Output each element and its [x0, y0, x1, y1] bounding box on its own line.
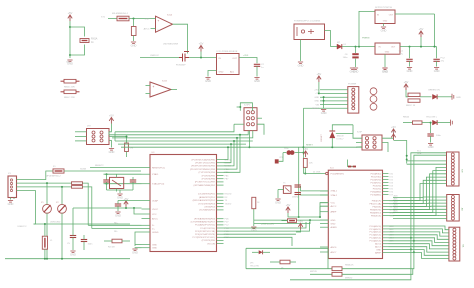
wire to Z1 vertical [133, 19, 135, 27]
wire usb shield 2 [13, 198, 15, 200]
header AD [447, 195, 460, 222]
wire icsp1 pin5 [234, 123, 244, 125]
wires IOH staircase [389, 161, 447, 216]
wire L led to gnd [437, 122, 450, 124]
wire diode loop [352, 125, 354, 134]
ground [382, 68, 387, 70]
resistor RN2A body [413, 121, 423, 124]
svg-text:GND: GND [298, 63, 304, 67]
wire C6 to ground [355, 59, 357, 67]
resistor RN1D 10k [303, 158, 307, 167]
svg-text:100n: 100n [88, 244, 94, 246]
wire C8 to ground [430, 136, 432, 143]
svg-text:(OC0B/INT0)PD0: (OC0B/INT0)PD0 [198, 194, 216, 196]
svg-text:24 CNS: 24 CNS [313, 171, 321, 173]
svg-text:M8TXD: M8TXD [310, 271, 318, 273]
wire RESET into 328 pin [303, 173, 325, 175]
wire xtal1 328 [301, 186, 329, 191]
junction SDA riser [413, 251, 415, 253]
ic U5 right pin names [369, 173, 381, 254]
svg-text:GND: GND [314, 97, 319, 99]
wire dtr to pad [279, 153, 283, 162]
svg-text:100n: 100n [436, 135, 442, 137]
wires AD header [393, 197, 447, 219]
header IOL [449, 227, 460, 261]
wire RD+ into U3 [88, 224, 141, 226]
junction +5V rail [434, 46, 436, 48]
wire to C6 [355, 47, 357, 53]
wire JP2 pin3 [75, 136, 87, 138]
wire R2 right [122, 240, 130, 242]
mounting hole MH2 [370, 96, 377, 103]
svg-text:+5V: +5V [298, 220, 303, 224]
ground usb [8, 201, 13, 203]
svg-text:PC3(ADC3): PC3(ADC3) [369, 234, 381, 237]
junction +5V arrow [420, 46, 422, 48]
resistor RN4D [64, 79, 76, 83]
wire +5V to JP2 pin2 [109, 124, 111, 132]
svg-text:GND: GND [115, 213, 121, 217]
svg-text:GND: GND [8, 202, 14, 206]
svg-text:(PCINT7/OC1C)PB7: (PCINT7/OC1C)PB7 [195, 182, 216, 184]
svg-text:(PCINT6)PB6: (PCINT6)PB6 [202, 179, 216, 181]
wire op-amp inverting input [151, 28, 156, 30]
svg-text:AVCC: AVCC [152, 217, 158, 220]
wire UGND down [135, 232, 142, 246]
wire dtr cap left [283, 152, 286, 154]
capacitor C9 series dtr 100n [287, 150, 292, 155]
wire Z1 to bottom rail [46, 213, 48, 259]
header POWER wires [303, 90, 347, 109]
wire UVCC rail [73, 207, 142, 209]
wire bus line 1 [115, 124, 234, 132]
svg-text:GND: GND [132, 250, 138, 254]
wire avcc riser [319, 206, 321, 217]
svg-text:M8RXD: M8RXD [345, 278, 353, 280]
wire L1 to USBVCC [44, 224, 46, 231]
svg-text:R2 1M: R2 1M [108, 247, 115, 249]
diode D2 1N4148 [329, 132, 335, 139]
svg-text:(RTS/AIN5/INT6)PD6: (RTS/AIN5/INT6)PD6 [194, 218, 216, 221]
svg-text:RN4C 22R: RN4C 22R [64, 97, 75, 99]
svg-text:UCAP: UCAP [152, 199, 159, 202]
resistor RN4B [332, 272, 342, 276]
svg-text:VCC: VCC [331, 203, 336, 205]
ground below Z [131, 42, 136, 44]
svg-text:(CTS/HWB/AIN6/T0)PD7: (CTS/HWB/AIN6/T0)PD7 [191, 221, 216, 224]
ground ON led [452, 94, 454, 100]
svg-text:ADC7: ADC7 [331, 251, 338, 254]
svg-text:+5V: +5V [199, 42, 204, 46]
svg-text:XTAL1: XTAL1 [331, 190, 338, 193]
header AD pins [451, 196, 454, 221]
wire jack ground leg [300, 40, 302, 62]
svg-text:GND: GND [383, 21, 388, 23]
resistor R1 1M [125, 143, 129, 152]
wire C7 top [83, 235, 85, 240]
ic U5 ATMEGA328P [328, 170, 382, 258]
ic U3 right pin stubs [217, 160, 224, 244]
junction reset diode [331, 146, 333, 148]
header IOH pins [451, 153, 454, 185]
wire diode right [336, 132, 353, 134]
svg-text:100n: 100n [284, 148, 288, 150]
resistor RN4C [64, 90, 76, 94]
ground [350, 68, 355, 70]
wire XTAL1 to crystal [104, 173, 142, 175]
wire to VCC [134, 208, 142, 214]
svg-text:GREEN ON: GREEN ON [428, 90, 440, 92]
svg-text:GND: GND [66, 62, 71, 64]
ic U3 left pin names [152, 167, 165, 249]
wire diode leg [331, 138, 333, 147]
ground reg2 [382, 68, 387, 70]
ground C2 [254, 78, 259, 80]
svg-text:PC5(PCINT9/OC1B): PC5(PCINT9/OC1B) [195, 231, 215, 233]
header ICSP [362, 135, 382, 150]
svg-text:NCP1117ST50T3G: NCP1117ST50T3G [375, 7, 392, 9]
junction VCC drop [133, 207, 135, 209]
wire CX2 top [132, 177, 134, 180]
svg-text:+5V: +5V [286, 203, 291, 207]
wire CX2 down [132, 182, 134, 190]
capacitor C6 100n [352, 53, 358, 55]
svg-text:PD0(RXD): PD0(RXD) [371, 173, 382, 175]
wire usb shield to ground [10, 198, 12, 200]
wire mid rn left [282, 220, 288, 222]
wire jp1 right [290, 261, 296, 263]
header POWER labels [312, 90, 320, 111]
svg-text:PB3(MOSI): PB3(MOSI) [370, 209, 381, 211]
svg-text:PC0(ADC0): PC0(ADC0) [369, 225, 381, 228]
svg-text:+5V: +5V [109, 114, 114, 118]
wire SCL riser to IOH [290, 153, 447, 280]
svg-text:PC4(ADC4): PC4(ADC4) [369, 237, 381, 240]
wire TX run right [342, 269, 413, 275]
wire diode cathode up [332, 125, 353, 131]
wire icsp1 pin5 to reset [248, 131, 250, 148]
mounting hole MH3 [370, 103, 377, 110]
wire RX long run [246, 268, 332, 270]
resistor RN3A 22R [72, 182, 83, 185]
wire JP2 pin6 to ground [109, 141, 112, 148]
wire to PC1 [409, 47, 411, 59]
wire +5V mid stub [296, 230, 301, 233]
ground LP2985 [205, 78, 210, 80]
svg-text:ADC6: ADC6 [375, 243, 382, 246]
wire XTAL2 to crystal [104, 183, 142, 185]
svg-text:VCC: VCC [152, 214, 157, 216]
wire xtal2 328 [301, 194, 329, 196]
wire +5V header stub [318, 82, 320, 93]
svg-text:GND: GND [321, 111, 327, 115]
capacitor C5 [70, 236, 76, 238]
wire icsp1 pin4 [257, 117, 262, 119]
svg-text:16MHz: 16MHz [292, 197, 299, 199]
svg-text:+3V3: +3V3 [243, 55, 249, 57]
svg-text:GND: GND [109, 150, 115, 154]
junction +5V node [200, 57, 202, 59]
header IOH [447, 152, 460, 186]
wire RD- into U3 [92, 228, 142, 230]
wire R2 left [104, 240, 112, 242]
wire reg2 gnd leg [384, 54, 386, 67]
svg-text:GND: GND [428, 145, 434, 149]
svg-text:UVCC: UVCC [152, 209, 159, 211]
header ICSP1 pins [247, 111, 255, 126]
wire icsp1 pin6 [257, 124, 264, 135]
wire RN pull leg [253, 209, 255, 220]
wires IOL staircase [389, 226, 449, 259]
svg-text:PC1(ADC1): PC1(ADC1) [369, 228, 381, 231]
junction bottom vertical [298, 216, 300, 218]
svg-text:CMP: CMP [145, 18, 150, 20]
junction fuse output [133, 18, 135, 20]
power symbol +5V at T1 [199, 46, 203, 49]
svg-text:GND: GND [331, 223, 336, 225]
ground top regulator [381, 27, 386, 29]
svg-text:-: - [153, 93, 154, 97]
wire RD+ down [83, 183, 89, 225]
power symbol +5V rn1d [303, 151, 307, 154]
svg-text:PC4(PCINT10): PC4(PCINT10) [200, 228, 215, 230]
wire LP2985 GND leg [208, 71, 217, 77]
svg-text:PB5(SCK): PB5(SCK) [371, 215, 381, 217]
svg-text:XUSB: XUSB [80, 169, 86, 171]
svg-text:PWRIN: PWRIN [362, 38, 370, 40]
svg-text:GND: GND [70, 252, 76, 256]
resistor RN1A [80, 39, 89, 43]
diode D1 M7 [337, 44, 342, 49]
svg-text:GND: GND [219, 72, 224, 74]
ic U5 left pin stubs [320, 191, 328, 252]
wire U3 pb0 riser [224, 147, 229, 159]
op-amp U1A LMV358 [156, 16, 173, 32]
svg-text:IC1B: IC1B [162, 81, 167, 83]
wire cap CX1 stub [106, 174, 108, 179]
wire +5V stub U3 [125, 207, 127, 208]
wire top reg OUT [395, 13, 435, 15]
ground ucap [115, 212, 120, 214]
wire Z2 to bottom rail [61, 213, 63, 259]
wire rn1d bottom [304, 167, 306, 173]
wire PWRIN up to NCP1117 [359, 11, 375, 46]
ic U5 left pin names [331, 173, 345, 254]
wire +5V down right [434, 14, 436, 47]
ground U3 [132, 249, 137, 251]
svg-text:IC1A: IC1A [167, 14, 172, 17]
svg-text:+: + [158, 19, 160, 23]
junction SCL riser [410, 248, 412, 250]
wire icsp1 top loop [240, 103, 252, 111]
svg-text:GND: GND [385, 52, 390, 54]
wire bus line 3 [112, 131, 253, 138]
junction crystal bottom [106, 183, 108, 185]
regulator IC2 LP2985 [217, 54, 240, 75]
wire bus line 5 [118, 143, 246, 145]
svg-text:PC2(ADC2): PC2(ADC2) [369, 231, 381, 234]
wire C5 bottom [72, 238, 74, 251]
svg-text:XTAL2: XTAL2 [331, 194, 338, 197]
svg-text:PB2(SS): PB2(SS) [372, 206, 381, 208]
wire jp1 left [270, 261, 280, 263]
wire +5V arrow stub [420, 37, 422, 47]
ground power jack [298, 62, 303, 64]
wire VBUS to fuse [17, 171, 54, 180]
svg-text:GND: GND [254, 79, 260, 83]
capacitor CY2 [295, 193, 301, 195]
resistor RN4A [332, 267, 342, 271]
svg-text:AGND: AGND [331, 226, 338, 229]
power symbol +5V mid [298, 224, 302, 227]
wire d3 left [252, 251, 259, 253]
wire mid run 1 [224, 222, 307, 228]
svg-text:YELLOW L: YELLOW L [426, 117, 438, 119]
wire tx loop top [246, 247, 328, 249]
svg-text:ADJ: ADJ [230, 71, 234, 74]
regulator IC4 NCP1117 [375, 43, 400, 54]
ground PC1 [407, 68, 412, 70]
ground JP2 [109, 149, 114, 151]
wire JP2 pin4 out [109, 136, 127, 138]
svg-text:RD-: RD- [114, 231, 118, 233]
svg-text:FDN340P: FDN340P [176, 65, 186, 67]
wire T1 to LP2985 IN [189, 57, 217, 59]
wire RN2C to ON led [420, 96, 432, 98]
wire AREF cap stub [430, 123, 432, 133]
svg-text:AD: AD [461, 208, 464, 211]
svg-text:AREF: AREF [375, 251, 381, 254]
wire RESET vertical from header [302, 108, 304, 173]
capacitor C2 1u [254, 64, 260, 66]
wire tx loop left [245, 248, 247, 268]
wire bottom ground rail [5, 258, 130, 260]
svg-text:GND: GND [117, 195, 123, 199]
power symbol +5V [404, 84, 408, 87]
junction SCL ad5 [410, 237, 412, 239]
svg-text:PD4(T0): PD4(T0) [373, 185, 382, 187]
svg-text:(XCK/AIN4)PD5: (XCK/AIN4)PD5 [199, 209, 215, 212]
ground C5 [70, 251, 75, 253]
svg-text:AREF: AREF [331, 211, 337, 214]
junction SDA ad4 [413, 240, 415, 242]
svg-text:RN4D 22R: RN4D 22R [64, 86, 75, 88]
svg-text:RXLED: RXLED [225, 194, 232, 196]
power jack X2 [294, 24, 325, 40]
svg-text:-: - [158, 28, 159, 32]
svg-text:PC6(OC1A/PCINT8): PC6(OC1A/PCINT8) [195, 233, 215, 236]
resistor RN2C [408, 93, 420, 96]
wire crystal gnd rail [107, 189, 134, 191]
svg-text:GND: GND [131, 43, 137, 47]
LED L yellow [433, 120, 438, 125]
svg-text:OUT: OUT [232, 58, 237, 60]
wire ucap gnd [117, 206, 119, 211]
svg-text:ADC6: ADC6 [331, 246, 338, 249]
wire top reg gnd stub [383, 24, 385, 27]
wire mid run 2 [224, 222, 310, 231]
power symbol +5V [68, 15, 72, 18]
svg-text:uUSB bootEN: uUSB bootEN [261, 222, 274, 225]
ic U5 right net labels [390, 173, 396, 242]
wire jack pin to diode [325, 31, 331, 47]
svg-text:GND: GND [407, 69, 413, 73]
wire PC2 to ground [436, 61, 438, 66]
wire Z to ground [133, 36, 135, 42]
resistor RN2B [408, 99, 420, 102]
wire U3 pb3 riser [224, 138, 238, 169]
header ICSP pins [365, 137, 376, 149]
svg-text:+5V: +5V [391, 130, 396, 134]
wire CX1 down [106, 182, 108, 190]
wire crystal bottom leg [116, 189, 118, 192]
svg-text:(PCINT0/OC0A/SS)PB0: (PCINT0/OC0A/SS)PB0 [192, 158, 216, 161]
wire UCAP [118, 200, 142, 202]
junction crystal top [106, 173, 108, 175]
wire y1 left [278, 189, 283, 191]
wire branch to RN1A [70, 27, 85, 37]
svg-text:GND: GND [456, 97, 461, 99]
svg-text:+5V: +5V [404, 80, 409, 84]
header JP2 [87, 129, 110, 145]
crystal Q1 16MHz [110, 177, 124, 188]
wire icsp left a [353, 133, 362, 138]
node junction top [69, 26, 71, 28]
svg-text:(PDI/PCINT2/MOSI)PB2: (PDI/PCINT2/MOSI)PB2 [191, 166, 216, 168]
svg-text:(PCINT5)PB5: (PCINT5)PB5 [202, 240, 216, 242]
wire R1 top [126, 137, 128, 144]
varistor Z2 [58, 204, 67, 213]
svg-text:1M: 1M [130, 148, 133, 150]
capacitor AVCC marks [348, 166, 351, 168]
header IOL pins [453, 228, 456, 260]
svg-text:PD6(AIN0): PD6(AIN0) [370, 190, 381, 193]
ic U3 left pin stubs [142, 168, 151, 248]
svg-text:MF-MSMF050-2: MF-MSMF050-2 [112, 13, 129, 15]
wire Z1 to D+ [46, 183, 48, 204]
svg-text:GND: GND [251, 228, 257, 232]
svg-text:RESET2: RESET2 [95, 165, 104, 167]
wire U3 pb2 riser [224, 141, 235, 166]
wire avcc [320, 205, 328, 207]
junction icsp1 reset [248, 146, 250, 148]
svg-text:PB4(MISO): PB4(MISO) [370, 212, 381, 214]
svg-text:PD5(T1): PD5(T1) [373, 188, 382, 190]
svg-text:GND: GND [381, 28, 387, 32]
resistor RN3B 22R [72, 186, 83, 189]
wire mid run 3 [224, 233, 297, 235]
ic U3 ATMEGA16U2 [150, 155, 217, 252]
power symbol +5V JP2 [109, 118, 113, 121]
wire dtr cap right [295, 152, 304, 154]
svg-text:GND: GND [314, 101, 319, 103]
svg-text:PD2(INT0): PD2(INT0) [371, 179, 382, 181]
wire icsp right b [382, 143, 388, 153]
pin bubble RESET [326, 172, 328, 174]
svg-text:YELLOW: YELLOW [250, 266, 259, 268]
svg-text:GND: GND [275, 200, 281, 204]
svg-text:RESET: RESET [321, 134, 323, 142]
op-amp U1B LMV358 [150, 82, 171, 97]
wire C2 to ground [256, 66, 258, 76]
wire rn2 gnd stub [253, 220, 255, 226]
LED ON green [433, 94, 438, 99]
wire y1 gnd leg [277, 190, 279, 199]
wire XUSB [64, 170, 141, 172]
wire bus left risers [109, 132, 115, 141]
wire resistor to L led [422, 122, 432, 124]
wire RESET net right [303, 146, 362, 148]
